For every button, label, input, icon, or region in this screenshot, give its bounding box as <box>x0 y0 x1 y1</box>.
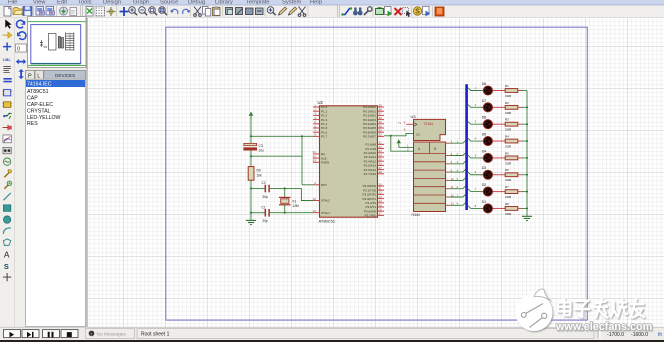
resistor R1 <box>505 89 518 93</box>
svg-text:D2: D2 <box>482 183 487 187</box>
wire crystal top stub <box>284 188 286 197</box>
junction dot rail row 4 <box>526 140 528 142</box>
watermark logo circle <box>516 289 553 331</box>
resistor R2 <box>505 105 518 109</box>
svg-text:Graph: Graph <box>133 0 149 6</box>
wire bus to LED D3 <box>468 172 483 175</box>
wire LED to resistor R1 <box>495 90 506 92</box>
U2 right pins (P0, P2, P3 ports) <box>362 103 384 217</box>
sheet border <box>166 27 588 320</box>
svg-text:330R: 330R <box>505 195 511 199</box>
svg-text:www.elecfans.com: www.elecfans.com <box>555 321 652 333</box>
svg-text:Root sheet 1: Root sheet 1 <box>141 332 170 338</box>
svg-text:X1: X1 <box>292 200 296 204</box>
svg-text:R3: R3 <box>505 118 509 122</box>
svg-text:30p: 30p <box>263 195 269 199</box>
svg-text:LBL: LBL <box>3 57 11 62</box>
svg-text:S: S <box>4 262 9 271</box>
led D1 <box>481 204 495 213</box>
wire resistor R2 to ground rail <box>518 106 522 108</box>
U3 body <box>414 142 446 212</box>
wire LED to resistor R7 <box>495 191 506 193</box>
led D4 <box>481 153 495 162</box>
svg-text:C1: C1 <box>262 205 266 209</box>
svg-text:Source: Source <box>160 0 178 6</box>
svg-text:12M: 12M <box>292 204 299 208</box>
svg-text:View: View <box>33 0 46 6</box>
left mode toolbar icons <box>5 20 11 29</box>
junction dot rail row 2 <box>526 106 528 108</box>
svg-text:File: File <box>8 0 17 6</box>
wire resistor R3 to ground rail <box>518 123 522 125</box>
wire LED to resistor R3 <box>495 123 506 125</box>
svg-text:R4: R4 <box>505 134 509 138</box>
ground rail vertical wire <box>526 91 528 217</box>
coordinates <box>597 329 599 339</box>
svg-text:17: 17 <box>379 212 383 216</box>
mcu U2 AT89C51 body <box>320 106 378 217</box>
power symbol for U3 A input <box>397 139 401 147</box>
shift register U3 74164 header <box>414 119 446 140</box>
svg-text:330R: 330R <box>505 111 511 115</box>
U3 cell dividers <box>414 142 446 203</box>
svg-text:29: 29 <box>313 159 317 163</box>
svg-text:330R: 330R <box>505 144 511 148</box>
svg-text:No Messages: No Messages <box>97 331 127 337</box>
schematic canvas grid <box>88 18 664 327</box>
sidebar background <box>0 18 88 327</box>
svg-text:C2: C2 <box>262 181 266 185</box>
svg-text:S: S <box>415 9 420 16</box>
wire P0.7 to U3 MR <box>384 133 414 135</box>
svg-text:74164: 74164 <box>424 122 434 126</box>
svg-text:i: i <box>91 331 92 336</box>
resistor R6 <box>505 173 518 177</box>
svg-text:LED-YELLOW: LED-YELLOW <box>27 115 61 121</box>
resistor R9 <box>248 167 254 181</box>
svg-text:R9: R9 <box>257 169 261 173</box>
svg-text:10k: 10k <box>257 174 263 178</box>
resistor R3 <box>505 122 518 126</box>
watermark chinese text dian zi fa shao you <box>558 299 644 317</box>
device list <box>26 79 86 326</box>
wire bus to LED D5 <box>468 138 483 141</box>
svg-text:18: 18 <box>313 197 317 201</box>
svg-text:System: System <box>282 0 301 6</box>
junction dot RST branch <box>301 135 303 137</box>
crystal X1 <box>279 197 291 204</box>
bus (blue) <box>465 84 468 210</box>
wire LED to resistor R6 <box>495 174 506 176</box>
svg-text:A: A <box>4 250 10 259</box>
resistor R8 <box>505 207 518 211</box>
capacitor C1 <box>265 209 269 217</box>
junction dot crystal top wire <box>250 187 252 189</box>
svg-text:U3: U3 <box>411 114 417 119</box>
svg-text:RST: RST <box>321 183 327 187</box>
playback buttons <box>4 330 21 338</box>
svg-text:R5: R5 <box>505 151 509 155</box>
ground symbol left <box>246 220 256 224</box>
wire LED to resistor R8 <box>495 207 506 209</box>
wire branch to U3 B input <box>391 136 414 151</box>
svg-text:D8: D8 <box>482 82 487 86</box>
svg-text:330R: 330R <box>505 212 511 216</box>
svg-text:Help: Help <box>310 0 322 6</box>
wire resistor R7 to ground rail <box>518 191 522 193</box>
svg-text:32: 32 <box>379 133 383 137</box>
svg-text:D5: D5 <box>482 132 487 136</box>
svg-text:19: 19 <box>313 209 317 213</box>
svg-text:P3.7/RD: P3.7/RD <box>365 214 377 218</box>
resistor R5 <box>505 156 518 160</box>
U3 output pins Q0-Q7 with wires to bus <box>446 140 466 206</box>
svg-text:D6: D6 <box>482 116 487 120</box>
svg-text:D3: D3 <box>482 166 487 170</box>
wire to C2 <box>251 187 265 189</box>
led D2 <box>481 187 495 196</box>
svg-text:Template: Template <box>246 0 270 6</box>
resistor R7 <box>505 190 518 194</box>
ground symbol right <box>522 216 532 220</box>
svg-text:28: 28 <box>379 170 383 174</box>
svg-text:C3: C3 <box>259 144 263 148</box>
wire vertical to RST <box>301 136 303 185</box>
svg-text:R7: R7 <box>505 185 509 189</box>
wire C2 to XTAL2 branch <box>270 187 302 189</box>
wire to U2 P1.7 pin <box>251 135 313 137</box>
junction dot <box>250 135 252 137</box>
wire resistor R8 to ground rail <box>518 207 522 209</box>
sheet field <box>137 329 594 339</box>
svg-text:Tools: Tools <box>78 0 92 6</box>
svg-text:PSEN: PSEN <box>321 161 329 165</box>
wire C1 to XTAL1 <box>270 212 313 214</box>
preview panel <box>28 17 87 68</box>
junction dot below C3 <box>250 155 252 157</box>
led D3 <box>481 170 495 179</box>
U3 CLK pin stub <box>398 120 414 124</box>
toolbar icons <box>4 7 11 17</box>
svg-text:Debug: Debug <box>188 0 205 6</box>
svg-text:10u: 10u <box>259 149 265 153</box>
wire junction to RST vertical <box>251 155 302 157</box>
wire power to C3 / P1 wire junction <box>250 116 252 143</box>
junction dot C1 left <box>250 212 252 214</box>
wire power to U3 A input <box>399 146 414 148</box>
svg-text:0: 0 <box>17 47 20 53</box>
svg-text:P0.7/AD7: P0.7/AD7 <box>363 135 376 139</box>
wire RST horizontal <box>302 184 313 186</box>
wire crystal bottom stub <box>284 205 286 213</box>
led D5 <box>481 137 495 146</box>
svg-text:Design: Design <box>103 0 121 6</box>
wire LED to resistor R2 <box>495 106 506 108</box>
svg-text:74164.IEC: 74164.IEC <box>27 82 52 88</box>
wire bus to LED D8 <box>468 88 483 91</box>
message field <box>86 329 135 339</box>
wire resistor R5 to ground rail <box>518 157 522 159</box>
junction dot rail row 3 <box>526 123 528 125</box>
svg-text:AT89C51: AT89C51 <box>319 219 336 224</box>
svg-text:74164: 74164 <box>411 213 420 217</box>
junction dot rail row 8 <box>526 207 528 209</box>
wire XTAL2 branch <box>301 188 313 200</box>
preview mini schematic <box>40 33 74 51</box>
wire bus to LED D2 <box>468 189 483 192</box>
svg-text:30p: 30p <box>263 219 269 223</box>
wire resistor R4 to ground rail <box>518 140 522 142</box>
junction dot rail row 6 <box>526 174 528 176</box>
junction dot rail row 5 <box>526 157 528 159</box>
svg-text:D1: D1 <box>482 200 487 204</box>
led D7 <box>481 103 495 112</box>
U2 left pins (P1.0-P1.7, EA, ALE, PSEN, RST, XTAL2, XTAL1) <box>313 103 331 215</box>
power symbol +5V (reset circuit) <box>249 112 254 121</box>
led D8 <box>481 86 495 95</box>
bottom window edge <box>0 340 664 342</box>
junction dot on P0.7 wire <box>390 135 392 137</box>
P L buttons and DEVICES header <box>26 71 35 80</box>
wire LED to resistor R5 <box>495 157 506 159</box>
svg-text:330R: 330R <box>505 94 511 98</box>
svg-text:Library: Library <box>215 0 233 6</box>
capacitor C3 <box>244 143 257 150</box>
svg-text:330R: 330R <box>505 128 511 132</box>
wire LED to resistor R4 <box>495 140 506 142</box>
junction dot rail row 7 <box>526 191 528 193</box>
svg-text:AT89C51: AT89C51 <box>27 89 49 95</box>
svg-text:XTAL1: XTAL1 <box>321 211 330 215</box>
svg-text:P1.7: P1.7 <box>321 135 328 139</box>
svg-text:D7: D7 <box>482 99 487 103</box>
orientation toolbar <box>17 20 25 28</box>
svg-text:th: th <box>658 332 662 338</box>
svg-text:DEVICES: DEVICES <box>55 73 75 78</box>
svg-text:D4: D4 <box>482 149 487 153</box>
junction dot below crystal <box>284 212 286 214</box>
junction dot above crystal <box>284 187 286 189</box>
U3 clock symbol <box>414 123 418 127</box>
svg-text:CAP: CAP <box>27 96 38 102</box>
wire R9 to ground <box>250 180 252 220</box>
svg-text:CAP-ELEC: CAP-ELEC <box>27 102 53 108</box>
wire resistor R6 to ground rail <box>518 174 522 176</box>
wire bus to LED D4 <box>468 155 483 158</box>
status bar <box>0 327 664 340</box>
wire bus to LED D6 <box>468 121 483 124</box>
led D6 <box>481 120 495 129</box>
toolbar <box>0 6 664 19</box>
capacitor C2 <box>265 185 269 193</box>
wire C3 to R9 <box>250 150 252 166</box>
svg-text:R2: R2 <box>505 101 509 105</box>
svg-text:Edit: Edit <box>57 0 67 6</box>
wire resistor R1 to ground rail <box>518 90 522 92</box>
svg-text:330R: 330R <box>505 161 511 165</box>
svg-text:R6: R6 <box>505 168 509 172</box>
svg-text:RES: RES <box>27 121 38 127</box>
wire bus to LED D1 <box>468 206 483 209</box>
svg-text:L: L <box>37 73 40 79</box>
svg-text:P: P <box>28 73 32 79</box>
wire to C1 <box>251 212 265 214</box>
menu bar <box>0 0 664 6</box>
svg-text:R8: R8 <box>505 202 509 206</box>
svg-text:XTAL2: XTAL2 <box>321 199 330 203</box>
svg-text:CRYSTAL: CRYSTAL <box>27 108 51 114</box>
svg-text:330R: 330R <box>505 178 511 182</box>
svg-text:P2.7/A15: P2.7/A15 <box>364 172 377 176</box>
svg-text:R1: R1 <box>505 84 509 88</box>
wire bus to LED D7 <box>468 105 483 108</box>
resistor R4 <box>505 139 518 143</box>
